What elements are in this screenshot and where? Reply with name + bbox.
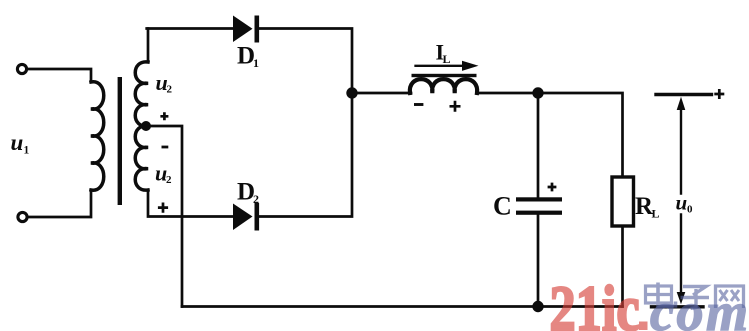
u0 arrowhead (down): [677, 292, 686, 304]
diode D1: [233, 16, 253, 43]
diode D1 cathode bar: [255, 16, 260, 43]
wire: top rail (secondary top to D1): [147, 27, 234, 30]
polarity + (output): [714, 89, 724, 99]
polarity + (inductor): [450, 101, 461, 112]
svg-text:0: 0: [687, 204, 693, 216]
capacitor plate (bottom): [516, 211, 562, 215]
junction: filter node: [532, 87, 543, 98]
wire: capacitor top lead: [537, 93, 540, 198]
wire: primary bottom to bottom-left terminal: [28, 190, 92, 217]
svg-text:2: 2: [253, 192, 259, 206]
watermark dot: [639, 322, 648, 331]
svg-text:1: 1: [253, 56, 259, 70]
svg-text:L: L: [652, 207, 660, 221]
wire: D1 cathode to node: [257, 29, 352, 94]
IL arrowhead: [462, 61, 479, 71]
wire: capacitor bottom lead: [537, 215, 540, 307]
current arrow IL: [416, 65, 467, 67]
bottom rail: [182, 305, 623, 308]
polarity + (upper secondary): [160, 112, 168, 120]
diode D2: [233, 204, 253, 231]
input terminal (top-left): [17, 64, 26, 73]
svg-text:2: 2: [166, 174, 172, 186]
output - terminal bar: [652, 305, 704, 308]
u0 arrow shaft (lower): [680, 215, 682, 295]
wire: D2 cathode up to node: [257, 93, 352, 217]
resistor RL: [612, 177, 634, 226]
watermark CJK zi: [681, 287, 710, 309]
transformer primary winding: [91, 82, 104, 190]
transformer secondary winding: [135, 62, 148, 190]
watermark 21ic: [550, 272, 648, 331]
u0 arrow shaft (upper): [680, 107, 682, 194]
svg-text:L: L: [443, 52, 451, 66]
polarity - (inductor): [414, 103, 423, 106]
output + terminal bar: [656, 93, 712, 96]
junction: D1/D2 node: [346, 87, 357, 98]
input terminal (bottom-left): [18, 212, 27, 221]
polarity - (secondary): [162, 146, 169, 149]
svg-text:u: u: [676, 191, 688, 215]
wire: secondary top lead: [147, 29, 150, 63]
polarity + (lower secondary): [158, 203, 168, 213]
wire: secondary bottom lead to D2: [148, 190, 234, 217]
wire: RL bottom lead: [621, 226, 624, 307]
svg-text:u: u: [11, 130, 24, 155]
diode D2 cathode bar: [255, 203, 260, 231]
wire: inductor to cap node: [477, 92, 538, 95]
wire: cap node to RL branch: [538, 93, 623, 177]
u0 arrowhead (up): [677, 97, 686, 110]
capacitor plate (top): [516, 197, 562, 201]
junction: center tap: [141, 121, 151, 131]
watermark CJK dian: [646, 283, 676, 307]
watermark CJK wang: [716, 286, 744, 308]
svg-text:C: C: [493, 192, 512, 221]
wire: top-left terminal to primary: [27, 69, 91, 82]
junction: cap to bottom rail: [532, 301, 543, 312]
svg-text:21ic: 21ic: [550, 272, 640, 331]
polarity + (capacitor): [548, 183, 557, 192]
svg-text:1: 1: [24, 145, 30, 157]
svg-text:2: 2: [167, 84, 173, 96]
wire: node to inductor: [352, 92, 411, 95]
transformer core: [118, 77, 122, 205]
inductor core bar: [412, 74, 477, 77]
inductor L: [410, 79, 477, 93]
wire: center tap to bottom rail: [146, 126, 182, 307]
